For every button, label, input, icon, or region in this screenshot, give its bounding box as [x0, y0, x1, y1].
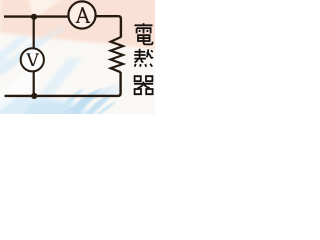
- base background: [0, 0, 155, 114]
- voltmeter label V: [27, 54, 39, 66]
- junction dot top: [31, 14, 37, 20]
- wire ammeter to corner: [96, 16, 121, 37]
- blue fan leaf 3: [62, 88, 85, 110]
- blue watermark field below bottom wire: [0, 97, 104, 118]
- blue watermark stripe 1: [0, 31, 52, 75]
- top wire: [4, 15, 68, 17]
- blue fan leaf 4: [97, 101, 116, 114]
- ammeter U1 circle: [68, 1, 95, 28]
- pale blue patch left of bottom corner: [102, 84, 119, 96]
- resistor heater zigzag: [111, 37, 123, 72]
- wire resistor to bottom corner: [5, 72, 121, 96]
- ammeter label A: [76, 7, 90, 22]
- faint blue stripe under ammeter area: [44, 26, 65, 40]
- label qi (appliance): [134, 76, 153, 94]
- junction dot bottom: [31, 93, 37, 99]
- white swoosh band bottom-left: [0, 66, 42, 112]
- blue swoosh edge line under fan: [64, 90, 110, 113]
- label dian (electric): [135, 23, 153, 44]
- blue watermark diagonal band above wire: [38, 58, 82, 101]
- wire voltmeter branch upper: [33, 17, 35, 48]
- blue watermark deeper patch bottom center: [24, 102, 86, 118]
- pale blue leaf tip above wire: [96, 85, 115, 95]
- pink band top: [0, 0, 160, 50]
- blue fan leaf 1: [70, 88, 103, 116]
- label re (heat): [134, 49, 153, 67]
- voltmeter U2 circle: [21, 48, 44, 71]
- wire voltmeter branch lower: [33, 71, 35, 96]
- blue fan leaf 2: [84, 93, 113, 116]
- blue watermark stripe 2: [0, 33, 28, 62]
- white watermark leaf crossing pink top: [28, 0, 64, 19]
- blue watermark stripe left edge low: [0, 57, 10, 76]
